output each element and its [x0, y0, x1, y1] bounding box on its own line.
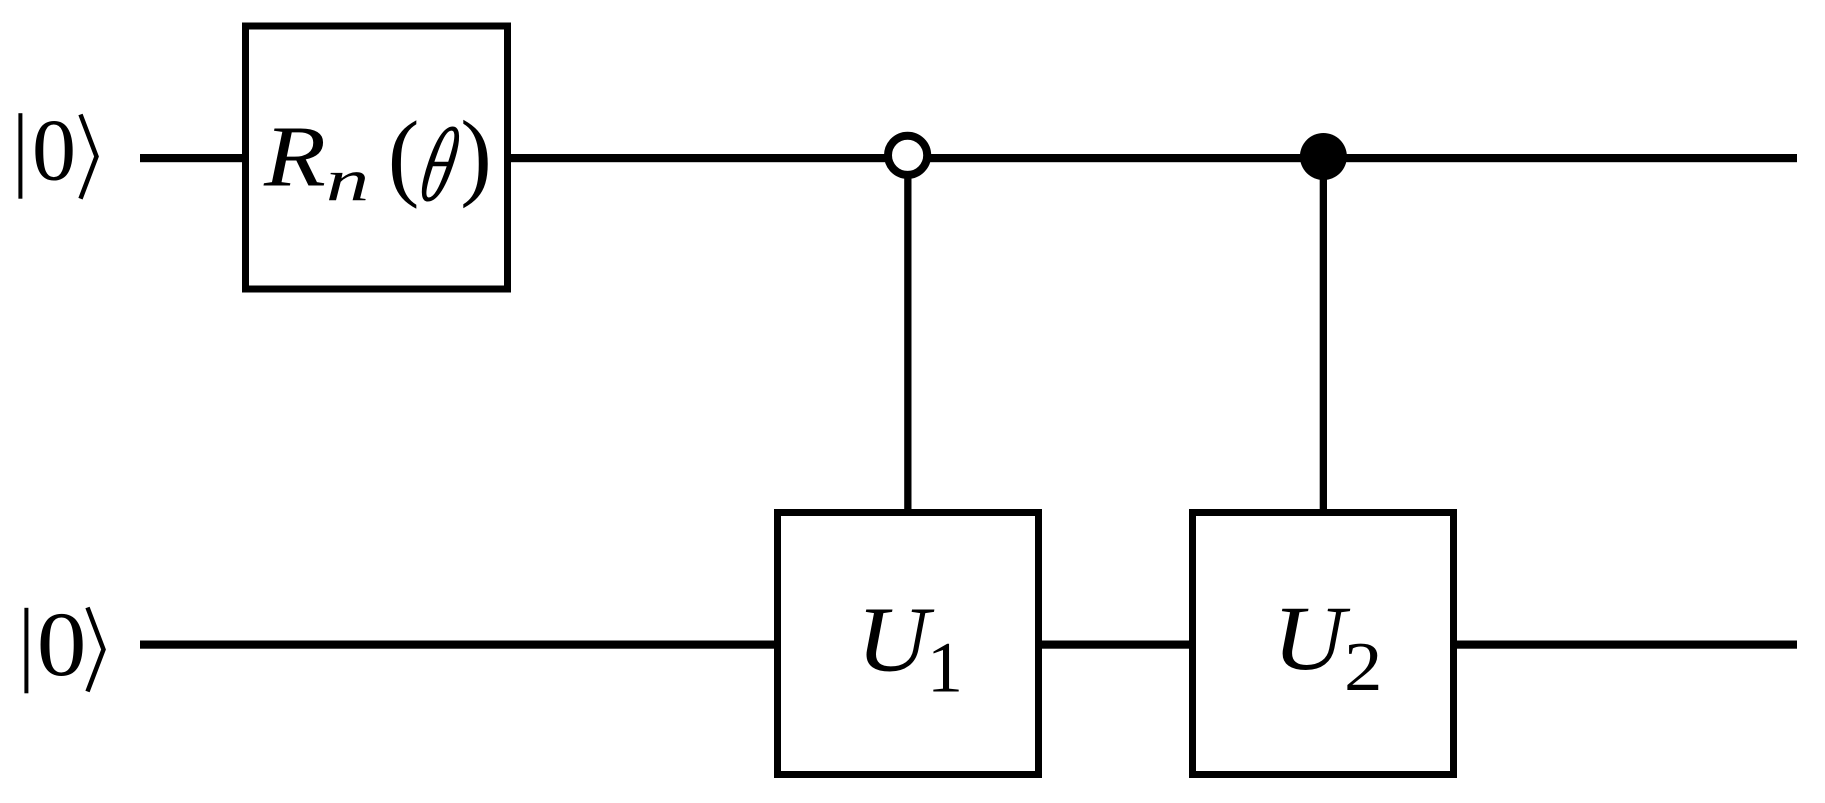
svg-text:U: U	[1273, 586, 1351, 689]
gate U1 box	[778, 513, 1039, 775]
svg-text:2: 2	[1344, 627, 1383, 705]
gate Rn(theta) label	[263, 100, 492, 224]
svg-text:0: 0	[32, 103, 76, 200]
svg-text:(: (	[388, 101, 420, 210]
ket |0> label qubit 1	[24, 593, 103, 695]
gate Rn(theta) box	[246, 26, 508, 289]
vertical control wire from filled control to U2	[1320, 157, 1327, 513]
filled control dot	[1300, 133, 1347, 180]
svg-text:1: 1	[927, 628, 963, 708]
gate U2 box	[1193, 513, 1454, 775]
wire qubit1 segment left of U1 box	[140, 641, 774, 649]
gate U2 label	[1273, 586, 1383, 705]
svg-text:): )	[460, 100, 492, 209]
vertical control wire from open control to U1	[904, 157, 911, 513]
svg-text:U: U	[857, 587, 936, 690]
wire qubit1 segment right of U2	[1457, 641, 1797, 649]
svg-text:R: R	[263, 109, 326, 205]
svg-text:n: n	[326, 148, 369, 213]
open-circle control (control on |0>)	[888, 136, 927, 175]
ket |0> label qubit 0	[18, 103, 96, 200]
gate U1 label	[857, 587, 963, 707]
wire qubit0 segment left of Rn box	[140, 154, 242, 162]
svg-text:0: 0	[37, 593, 87, 695]
wire qubit1 segment between U1 and U2	[1042, 641, 1189, 649]
wire qubit0 segment right of Rn box	[511, 154, 1797, 162]
